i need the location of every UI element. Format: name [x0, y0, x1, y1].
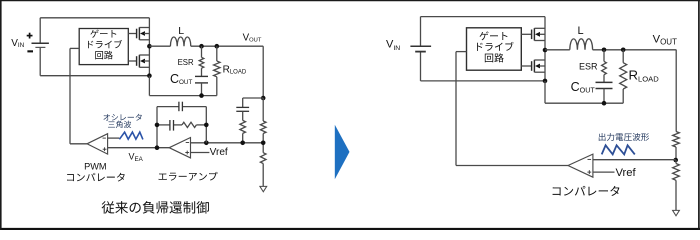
wire PWM output	[70, 143, 87, 145]
resistor ESR right	[602, 61, 607, 74]
label ESR right	[579, 61, 598, 71]
resistor R1 divider	[260, 121, 266, 134]
label gate-drive line3	[95, 51, 113, 60]
wire L to Vout corner	[191, 45, 263, 47]
wire RLOAD branch upper	[216, 46, 218, 61]
wire U1 input	[70, 48, 79, 143]
op-amp comparator U5	[568, 154, 593, 177]
label error-amp jp	[159, 172, 218, 181]
node switch mid dot	[147, 44, 152, 49]
label caption left	[102, 201, 209, 214]
wire comparator output	[456, 165, 568, 167]
label L right	[578, 25, 584, 37]
error-amp plus sign	[185, 151, 189, 155]
svg-text:L: L	[178, 25, 184, 37]
comparator minus sign	[588, 158, 592, 160]
resistor R6 divider lower	[673, 164, 680, 181]
capacitor feedforward C2	[236, 107, 249, 111]
compensation right vertical	[205, 107, 207, 143]
node COUT bottom dot	[199, 93, 204, 98]
wire FB horizontal	[191, 142, 264, 144]
node switch mid dot right	[543, 48, 548, 53]
PWM plus sign	[103, 147, 107, 151]
svg-text:Vref: Vref	[210, 147, 228, 158]
resistor R2 ff	[240, 120, 246, 133]
label COUT left	[170, 72, 192, 86]
node COUT2 bottom dot	[602, 101, 607, 106]
svg-text:PWM: PWM	[84, 162, 106, 172]
wire to inductor right	[545, 49, 570, 51]
wire ESR2 branch upper	[603, 50, 605, 62]
ground right	[673, 210, 680, 215]
wire switch-node vertical	[148, 18, 150, 76]
transistor Q2 body arrow	[140, 59, 149, 64]
wire bottom return right	[545, 81, 623, 103]
wire COUT to bottom	[201, 83, 203, 96]
label L left	[178, 25, 184, 37]
wire U4 input	[456, 52, 467, 166]
svg-text:ESR: ESR	[579, 61, 598, 71]
wire VOUT2 drop	[675, 50, 677, 132]
compensation left vertical	[156, 107, 158, 148]
transistor Q4 gate wire	[521, 65, 531, 67]
battery V1 minus sign	[27, 50, 33, 52]
node RLOAD-branch dot	[215, 44, 220, 49]
transistor Q4 channel bar	[533, 60, 535, 73]
transistor Q1 drain	[139, 27, 149, 29]
label VIN left	[11, 38, 24, 49]
gate drive box U1	[79, 29, 128, 65]
wire osc stub	[108, 137, 120, 139]
label comparator right	[553, 186, 620, 196]
op-amp error-amp U2	[169, 138, 190, 158]
label output-waveform	[599, 133, 649, 141]
resistor R3 divider lower	[260, 153, 266, 164]
label gate-drive line1	[90, 29, 116, 37]
waveform sawtooth icon	[602, 145, 635, 154]
transistor Q1 gate wire	[128, 33, 136, 35]
capacitor C3 comp top	[179, 102, 183, 112]
wire bottom rail left	[40, 75, 149, 77]
error-amp minus sign	[186, 142, 189, 144]
wire Vref stub left	[191, 152, 210, 154]
label Vref left	[210, 147, 228, 158]
capacitor COUT right	[596, 82, 613, 88]
wire R3 to ground	[262, 164, 264, 187]
wire ff-branch top	[243, 98, 264, 107]
node PGND dot	[147, 73, 152, 78]
wire switch-node vertical right	[544, 17, 546, 81]
label gate-drive2 line2	[477, 42, 514, 51]
transistor Q2 drain	[139, 54, 149, 56]
transistor Q1 source	[139, 39, 149, 41]
resistor RLOAD left	[214, 61, 220, 77]
transistor Q4 gate bar	[531, 61, 533, 71]
wire ESR branch upper	[201, 46, 203, 57]
battery V2 stems	[420, 17, 422, 81]
transistor Q2 gate wire	[128, 60, 136, 62]
resistor R5 divider upper	[673, 132, 680, 148]
transistor Q4 body arrow	[535, 64, 545, 69]
wire R5 to FB2	[675, 147, 677, 160]
wire C2 to R2	[242, 111, 244, 120]
arrow transition	[335, 125, 350, 180]
node FB2 dot	[673, 158, 678, 163]
capacitor C4 comp mid	[170, 120, 174, 131]
node comp dots	[155, 123, 209, 150]
transistor Q3 gate bar	[531, 30, 533, 40]
wire RLOAD2 to bottom	[622, 89, 624, 103]
battery V1 plus sign	[27, 33, 33, 39]
svg-text:L: L	[578, 25, 584, 37]
transistor Q3 source	[534, 40, 545, 42]
battery V1 stems	[39, 18, 41, 76]
label RLOAD right	[629, 67, 660, 83]
label VIN right	[386, 39, 400, 52]
label gate-drive line2	[88, 40, 122, 48]
wire FB2 to R6	[675, 160, 677, 164]
transistor Q3 drain	[534, 27, 545, 29]
capacitor COUT left	[195, 76, 208, 83]
wire R1 to FB	[262, 134, 264, 143]
transistor Q3 gate wire	[521, 33, 531, 35]
label RLOAD left	[223, 64, 247, 75]
transistor Q1 body arrow	[140, 31, 149, 36]
label comparator left	[67, 173, 125, 182]
ground left	[260, 186, 267, 191]
inductor L2	[570, 39, 593, 50]
label Vref right	[616, 167, 637, 179]
wire comp top branch	[157, 106, 206, 108]
node ESR2-branch dot	[602, 48, 607, 53]
wire ESR to cap	[201, 68, 203, 76]
wire top rail right	[421, 16, 546, 18]
wire VOUT drop	[262, 46, 264, 98]
node divider top dot	[261, 96, 266, 101]
transistor Q1 gate bar	[136, 29, 138, 39]
wire divider upper R1	[262, 98, 264, 121]
wire COUT2 to bottom	[603, 89, 605, 104]
label VOUT left	[243, 32, 262, 43]
node FB dots	[204, 141, 266, 146]
transistor Q3 channel bar	[533, 28, 535, 40]
node ESR-branch dot	[199, 44, 204, 49]
label ESR left	[178, 58, 194, 67]
wire bottom rail right	[421, 80, 546, 82]
wire top rail left	[40, 17, 149, 19]
svg-text:ESR: ESR	[178, 58, 194, 67]
label gate-drive2 line3	[485, 53, 504, 62]
transistor Q3 body arrow	[535, 32, 545, 37]
wire error-amp output	[108, 147, 170, 149]
label VEA	[129, 151, 144, 163]
wire to inductor	[149, 45, 170, 47]
wire R2 to FB	[242, 133, 244, 142]
wire ESR2 to cap	[603, 75, 605, 83]
transistor Q2 channel bar	[138, 55, 140, 68]
svg-text:Vref: Vref	[616, 167, 637, 179]
transistor Q2 source	[139, 66, 149, 68]
transistor Q2 gate bar	[136, 56, 138, 66]
label VOUT right	[653, 33, 677, 46]
label PWM	[84, 162, 106, 172]
oscillator triangle-wave icon	[119, 132, 142, 139]
node PGND dot right	[543, 79, 548, 84]
inductor L1	[170, 37, 190, 46]
comparator plus sign	[587, 170, 591, 174]
resistor R4 comp mid	[182, 122, 196, 127]
transistor Q1 channel bar	[138, 27, 140, 40]
wire L2 to Vout corner	[593, 49, 677, 51]
wire comp mid branch	[157, 124, 206, 126]
PWM minus sign	[103, 137, 106, 139]
node RLOAD2-branch dot	[621, 48, 626, 53]
resistor RLOAD right	[620, 63, 627, 89]
transistor Q4 source	[534, 71, 545, 73]
wire FB2 horizontal	[593, 159, 676, 161]
label COUT right	[571, 80, 596, 94]
wire RLOAD to bottom	[216, 77, 218, 96]
wire bottom return left	[149, 76, 216, 96]
op-amp PWM comparator U3	[87, 134, 108, 154]
transistor Q4 drain	[534, 59, 545, 61]
wire RLOAD2 branch upper	[622, 50, 624, 63]
label oscillator line2	[108, 121, 131, 128]
battery V2 plates	[410, 46, 431, 51]
gate drive box U4	[467, 28, 522, 70]
wire FB node to lower R3	[262, 143, 264, 153]
battery V1 plates	[32, 43, 49, 47]
wire Vref stub right	[593, 171, 615, 173]
resistor ESR left	[199, 57, 204, 68]
label oscillator line1	[103, 114, 141, 121]
wire R6 to ground	[675, 180, 677, 210]
label gate-drive2 line1	[480, 31, 508, 40]
